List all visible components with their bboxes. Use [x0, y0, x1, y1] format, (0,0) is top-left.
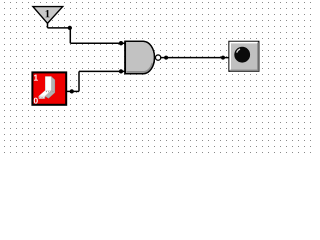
junction at NAND top input pin	[119, 41, 123, 45]
junction at LED input pin	[221, 56, 225, 60]
lever foot right face	[45, 90, 55, 98]
lever foot front face	[39, 96, 45, 98]
wire down from junction	[69, 28, 71, 43]
wire right to NAND top input	[70, 42, 126, 44]
junction at switch output pin	[70, 89, 74, 93]
lever upright front face	[45, 77, 51, 91]
LED indicator D1	[229, 41, 259, 71]
junction at corner	[68, 26, 72, 30]
toggle switch S1	[32, 72, 66, 104]
wire stub from switch output	[66, 90, 79, 92]
lever foot top face	[39, 90, 51, 96]
constant 1 source V1	[33, 7, 63, 24]
NAND output inversion bubble	[155, 55, 160, 60]
wire right to NAND bottom input	[79, 70, 126, 72]
wire from V1 apex down	[47, 23, 49, 28]
junction after bubble	[164, 56, 168, 60]
wire from bubble to LED	[161, 57, 229, 59]
lever upright right face	[51, 77, 55, 93]
texture dots on lever	[46, 91, 47, 92]
wire up from corner	[78, 71, 80, 91]
junction at NAND bottom input pin	[119, 69, 123, 73]
NAND gate U1 body	[125, 41, 154, 75]
wire horizontal to first junction	[48, 27, 71, 29]
